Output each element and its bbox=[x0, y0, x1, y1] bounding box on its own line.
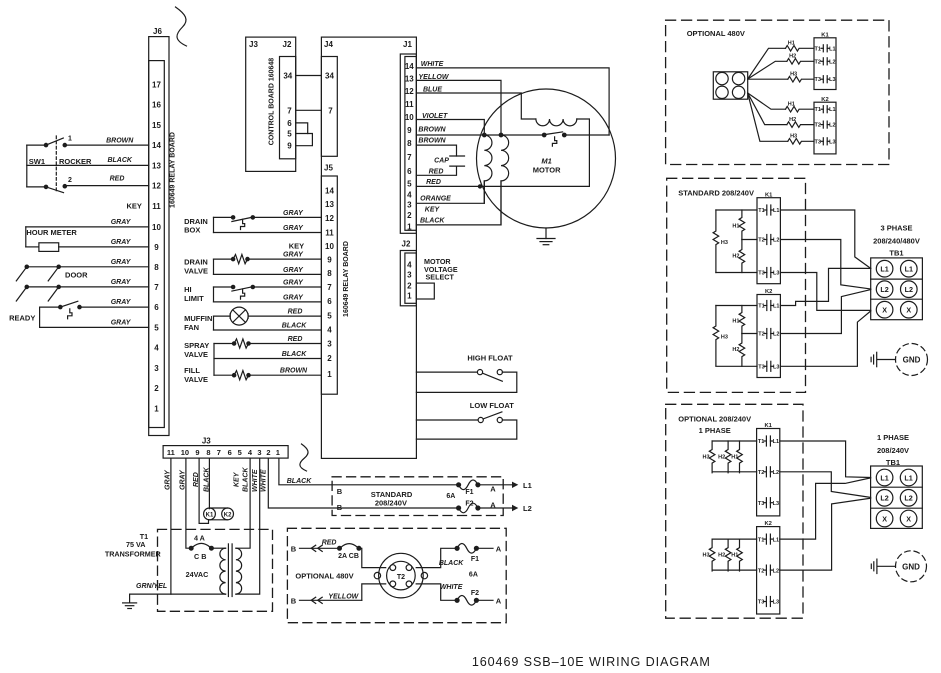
fuse F2 bbox=[457, 503, 480, 513]
svg-text:T3: T3 bbox=[814, 139, 820, 145]
svg-text:BOX: BOX bbox=[184, 226, 200, 235]
svg-text:L2: L2 bbox=[829, 123, 835, 129]
svg-text:A: A bbox=[496, 544, 502, 553]
svg-text:H1: H1 bbox=[731, 553, 738, 559]
svg-text:3: 3 bbox=[407, 200, 412, 209]
J5 pin box bbox=[321, 176, 337, 394]
SW1 mechanical link (dashed) bbox=[55, 136, 57, 191]
wire J3-10 GRAY down to breaker bbox=[186, 458, 189, 548]
svg-text:SW1: SW1 bbox=[29, 157, 45, 166]
svg-text:GRAY: GRAY bbox=[111, 219, 132, 226]
svg-text:160649 RELAY BOARD: 160649 RELAY BOARD bbox=[170, 132, 177, 208]
drain valve return wire J5 pin 8 bbox=[214, 259, 322, 274]
J4 pin numbers bbox=[325, 72, 334, 116]
OPTIONAL 480V heater module dashed box (top right) bbox=[666, 20, 889, 164]
K1 row labels T3 L3 bbox=[814, 77, 835, 83]
device DRAIN BOX label bbox=[184, 217, 208, 235]
K1 row labels T2 L2 bbox=[758, 470, 779, 476]
svg-text:8: 8 bbox=[407, 139, 412, 148]
muffin fan return wire J5 pin 4 bbox=[214, 316, 322, 330]
svg-text:1: 1 bbox=[68, 136, 72, 143]
capacitor CAP plates bbox=[450, 156, 465, 166]
breaker 2A CB bbox=[338, 544, 361, 551]
svg-text:BLACK: BLACK bbox=[107, 157, 132, 164]
svg-text:L1: L1 bbox=[523, 481, 532, 490]
svg-text:GRAY: GRAY bbox=[111, 279, 132, 286]
svg-text:A: A bbox=[490, 485, 496, 494]
K2 T2 row wire left bbox=[742, 333, 757, 335]
svg-text:10: 10 bbox=[405, 113, 414, 122]
wire J1-5 RED to motor start winding bbox=[416, 119, 589, 186]
svg-text:7: 7 bbox=[327, 283, 332, 292]
svg-text:FILL: FILL bbox=[184, 366, 200, 375]
svg-text:16: 16 bbox=[152, 101, 161, 110]
svg-text:GRAY: GRAY bbox=[283, 225, 304, 232]
svg-text:T1: T1 bbox=[758, 304, 764, 310]
drain box return wire J5 pin 11 bbox=[214, 217, 322, 232]
wire K1-T2 to TB1 L2 bbox=[780, 240, 870, 290]
wire control J2-7 to J4-7 bbox=[296, 109, 322, 111]
fuse F2 (480V) bbox=[455, 596, 478, 606]
device SPRAY VALVE label bbox=[184, 341, 209, 359]
svg-text:M1: M1 bbox=[541, 156, 551, 165]
svg-text:LOW FLOAT: LOW FLOAT bbox=[470, 401, 514, 410]
svg-text:HOUR METER: HOUR METER bbox=[26, 228, 77, 237]
heater H3 (K1) bbox=[788, 76, 814, 82]
svg-text:H3: H3 bbox=[721, 240, 728, 246]
svg-text:GRAY: GRAY bbox=[283, 252, 304, 259]
svg-text:YELLOW: YELLOW bbox=[328, 593, 359, 600]
svg-text:L2: L2 bbox=[773, 568, 779, 574]
K2 row T1-L1 contact bbox=[821, 106, 829, 113]
svg-text:GRAY: GRAY bbox=[111, 239, 132, 246]
device HI LIMIT label bbox=[184, 285, 204, 303]
svg-text:KEY: KEY bbox=[126, 202, 141, 211]
svg-text:K1: K1 bbox=[206, 512, 214, 518]
svg-text:K1: K1 bbox=[821, 32, 829, 38]
svg-text:3: 3 bbox=[154, 364, 159, 373]
wire control J2-34 to J4-34 bbox=[296, 75, 322, 77]
heater H2 (K1) bbox=[787, 59, 814, 65]
svg-text:L1: L1 bbox=[829, 107, 835, 113]
K2 row T2-L2 contact bbox=[821, 121, 829, 128]
K2 row labels T2 L2 bbox=[758, 568, 779, 574]
K1 T2 row wire left bbox=[742, 239, 757, 241]
K1 T3 row wire left bbox=[716, 272, 757, 274]
svg-text:ROCKER: ROCKER bbox=[59, 157, 92, 166]
heater H2 (K1 1ph) bbox=[725, 441, 731, 473]
svg-text:BROWN: BROWN bbox=[280, 368, 308, 375]
contactor K1 (3ph) box bbox=[757, 198, 780, 284]
svg-text:WHITE: WHITE bbox=[421, 61, 444, 68]
cable break squiggle right of J3 bbox=[300, 444, 308, 471]
svg-text:T3: T3 bbox=[814, 77, 820, 83]
svg-text:READY: READY bbox=[9, 314, 35, 323]
svg-text:T2: T2 bbox=[758, 332, 764, 338]
svg-text:T2: T2 bbox=[758, 470, 764, 476]
heater H2 (vertical, K1) bbox=[739, 240, 745, 273]
K1 row T3-L3 contact bbox=[764, 498, 773, 508]
wire fanout to K2 row3 bbox=[748, 93, 788, 141]
svg-text:H3: H3 bbox=[790, 72, 797, 78]
svg-text:208/240V: 208/240V bbox=[877, 446, 909, 455]
input wire YELLOW with plug chevrons bbox=[300, 597, 362, 603]
wire J1-9 BROWN bbox=[416, 134, 544, 136]
svg-text:J1: J1 bbox=[403, 40, 412, 49]
svg-text:C B: C B bbox=[194, 552, 206, 561]
hi limit switch on J5 pin 7 wire bbox=[214, 285, 322, 299]
svg-text:7: 7 bbox=[154, 283, 159, 292]
chassis ground symbol (1 phase) bbox=[871, 559, 895, 573]
svg-text:VALVE: VALVE bbox=[184, 266, 208, 275]
svg-text:X: X bbox=[906, 306, 911, 315]
svg-text:BLACK: BLACK bbox=[242, 467, 249, 492]
svg-text:L3: L3 bbox=[773, 600, 779, 606]
svg-text:L2: L2 bbox=[773, 470, 779, 476]
svg-text:L1: L1 bbox=[773, 208, 779, 214]
svg-text:CAP: CAP bbox=[434, 157, 449, 164]
device DRAIN VALVE label bbox=[184, 258, 208, 276]
svg-text:DRAIN: DRAIN bbox=[184, 258, 208, 267]
junction dot on RED wire bbox=[478, 185, 481, 188]
K2 row labels T3 L3 bbox=[758, 600, 779, 606]
svg-text:L3: L3 bbox=[773, 271, 779, 277]
connector J6 body bbox=[149, 37, 169, 436]
K2 row T3-L3 contact bbox=[764, 597, 773, 607]
svg-text:2: 2 bbox=[407, 211, 412, 220]
K1 row T2-L2 contact bbox=[821, 58, 829, 65]
svg-text:L2: L2 bbox=[829, 59, 835, 65]
svg-text:6: 6 bbox=[327, 297, 332, 306]
heater H2 (K2 1ph) bbox=[725, 539, 731, 571]
svg-text:KEY: KEY bbox=[425, 207, 441, 214]
svg-text:7: 7 bbox=[287, 106, 292, 115]
J4 pin box bbox=[321, 57, 337, 157]
K1 T1 row wire left bbox=[712, 440, 757, 442]
svg-text:K2: K2 bbox=[765, 289, 772, 295]
svg-text:3: 3 bbox=[327, 340, 332, 349]
heater H1 (vertical, K2) bbox=[739, 306, 745, 334]
svg-text:H1: H1 bbox=[732, 224, 739, 230]
svg-text:L1: L1 bbox=[829, 46, 835, 52]
svg-text:RED: RED bbox=[426, 179, 441, 186]
svg-text:6A: 6A bbox=[469, 571, 478, 578]
heater H3 (K2 1ph) bbox=[709, 539, 715, 571]
svg-text:1: 1 bbox=[407, 292, 412, 301]
svg-text:DOOR: DOOR bbox=[65, 270, 88, 279]
output wire arrow L1 bbox=[478, 482, 518, 488]
svg-text:K2: K2 bbox=[224, 512, 232, 518]
svg-text:X: X bbox=[882, 306, 887, 315]
svg-text:11: 11 bbox=[405, 100, 414, 109]
svg-text:GRAY: GRAY bbox=[283, 294, 304, 301]
svg-text:L1: L1 bbox=[880, 473, 888, 482]
svg-text:6: 6 bbox=[287, 119, 292, 128]
svg-text:9: 9 bbox=[327, 256, 332, 265]
transformer core bbox=[228, 544, 232, 597]
heater H1 (K2) bbox=[786, 106, 815, 112]
high float switch loop bbox=[416, 370, 516, 393]
transformer secondary winding bbox=[236, 548, 242, 594]
svg-text:J4: J4 bbox=[324, 40, 333, 49]
hi limit return wire J5 pin 6 bbox=[214, 287, 322, 302]
K2 row labels T1 L1 bbox=[758, 537, 779, 543]
svg-text:L3: L3 bbox=[773, 365, 779, 371]
heater H3 (K2) bbox=[788, 139, 814, 145]
svg-text:LIMIT: LIMIT bbox=[184, 294, 204, 303]
K1 row labels T2 L2 bbox=[758, 238, 779, 244]
transformer T1 labels bbox=[105, 532, 162, 559]
connector J2 (motor voltage select) body bbox=[400, 251, 416, 306]
svg-text:1 PHASE: 1 PHASE bbox=[699, 426, 731, 435]
motor start winding top coil bbox=[536, 119, 577, 126]
fuse F1 bbox=[457, 480, 480, 490]
svg-text:T1: T1 bbox=[758, 537, 764, 543]
K1 row labels T3 L3 bbox=[758, 501, 779, 507]
transformer T1 module dashed box bbox=[158, 529, 273, 611]
K2 T2 row wire left bbox=[712, 569, 757, 571]
svg-text:K1: K1 bbox=[765, 192, 773, 198]
svg-text:4: 4 bbox=[407, 261, 412, 270]
K2 row T2-L2 contact bbox=[764, 329, 773, 339]
svg-text:T2: T2 bbox=[397, 574, 405, 581]
svg-text:F2: F2 bbox=[471, 590, 479, 597]
drain box switch on J5 pin 12 wire bbox=[214, 216, 322, 230]
relay board main rectangle (J4/J1) bbox=[321, 37, 416, 458]
svg-text:1: 1 bbox=[327, 370, 332, 379]
transformer primary winding bbox=[220, 548, 226, 594]
svg-text:H2: H2 bbox=[718, 553, 725, 559]
wire CB to T2 top-left bbox=[361, 548, 386, 567]
wire J3-11 GRAY down to transformer primary bbox=[170, 458, 172, 594]
svg-text:L2: L2 bbox=[773, 238, 779, 244]
svg-text:7: 7 bbox=[328, 106, 333, 115]
K2 row labels T1 L1 bbox=[758, 304, 779, 310]
wire yellow to T2 bottom-left bbox=[362, 584, 386, 600]
STANDARD 208/240V heater module dashed box (middle right) bbox=[667, 178, 806, 392]
svg-text:T3: T3 bbox=[758, 365, 764, 371]
K1 row T2-L2 contact bbox=[764, 467, 773, 477]
svg-text:GRAY: GRAY bbox=[283, 280, 304, 287]
wire K1-T1 to TB1 L1 bbox=[780, 210, 870, 268]
K2 row T3-L3 contact bbox=[764, 361, 773, 371]
svg-text:4: 4 bbox=[154, 344, 159, 353]
wire fanout to K2 row2 bbox=[748, 93, 787, 125]
svg-text:OPTIONAL 480V: OPTIONAL 480V bbox=[295, 572, 353, 581]
svg-text:T3: T3 bbox=[758, 501, 764, 507]
svg-text:J5: J5 bbox=[324, 164, 333, 173]
SW1 left bus wire bbox=[26, 145, 28, 187]
svg-text:4: 4 bbox=[407, 190, 412, 199]
control board pin numbers bbox=[283, 72, 292, 151]
wire J3-2 WHITE to standard fuse box bbox=[268, 458, 458, 508]
transformer T2 assembly bbox=[374, 553, 427, 598]
K2 row T1-L1 contact bbox=[764, 301, 773, 311]
svg-text:A: A bbox=[496, 596, 502, 605]
K2 T3 row wire left bbox=[716, 365, 757, 367]
svg-text:H1: H1 bbox=[788, 41, 795, 47]
svg-text:GRAY: GRAY bbox=[283, 267, 304, 274]
label 1 PHASE 208/240V TB1 bbox=[877, 433, 909, 467]
svg-text:H2: H2 bbox=[789, 54, 796, 60]
svg-text:L3: L3 bbox=[773, 501, 779, 507]
wire J3-3 WHITE down to transformer secondary bbox=[236, 458, 260, 594]
TB1 terminal labels bbox=[880, 265, 913, 315]
K2 row labels T2 L2 bbox=[814, 123, 835, 129]
svg-text:3: 3 bbox=[407, 271, 412, 280]
svg-text:L1: L1 bbox=[773, 537, 779, 543]
svg-text:BLACK: BLACK bbox=[287, 478, 312, 485]
svg-text:RED: RED bbox=[429, 168, 444, 175]
svg-text:5: 5 bbox=[407, 179, 412, 188]
wire J3-9 RED down to relay K1 bbox=[199, 458, 208, 523]
wire J1-8 BROWN to capacitor bbox=[416, 145, 456, 156]
svg-text:5: 5 bbox=[287, 130, 292, 139]
K2 row T1-L1 contact bbox=[764, 534, 773, 544]
svg-text:BLACK: BLACK bbox=[282, 323, 307, 330]
svg-text:L2: L2 bbox=[880, 494, 888, 503]
jumper pins 6-5 bbox=[296, 123, 308, 134]
heater H1 (K1) bbox=[786, 46, 815, 52]
transformer primary bottom wire bbox=[130, 593, 226, 595]
svg-text:160649 RELAY BOARD: 160649 RELAY BOARD bbox=[343, 241, 350, 317]
wire switch to white vertical bbox=[564, 134, 609, 136]
svg-text:K2: K2 bbox=[821, 97, 828, 103]
svg-text:F1: F1 bbox=[471, 556, 479, 563]
svg-text:TB1: TB1 bbox=[889, 248, 903, 257]
switch SW1 common wire (BLACK, J6 pin 13) bbox=[27, 164, 149, 166]
svg-text:ORANGE: ORANGE bbox=[420, 196, 451, 203]
low float switch loop bbox=[416, 412, 516, 439]
480V terminal block bbox=[713, 72, 747, 99]
jumper pins 5-9 bbox=[296, 134, 313, 146]
svg-text:12: 12 bbox=[152, 182, 161, 191]
svg-text:L1: L1 bbox=[904, 473, 912, 482]
switch SW1 rocker pole 2 wire (RED, J6 pin 12) bbox=[27, 185, 149, 193]
svg-text:BROWN: BROWN bbox=[106, 138, 134, 145]
svg-text:GND: GND bbox=[903, 356, 921, 365]
K2 T1 row wire left bbox=[712, 538, 757, 540]
svg-text:MUFFIN: MUFFIN bbox=[184, 314, 212, 323]
svg-text:15: 15 bbox=[152, 121, 161, 130]
svg-text:7: 7 bbox=[407, 153, 412, 162]
svg-text:J3: J3 bbox=[202, 436, 211, 445]
svg-text:13: 13 bbox=[325, 200, 334, 209]
device MUFFIN FAN label bbox=[184, 314, 212, 332]
svg-text:L2: L2 bbox=[880, 285, 888, 294]
wire J1-6 RED to capacitor bbox=[416, 166, 456, 175]
label MOTOR VOLTAGE SELECT bbox=[424, 257, 458, 281]
wire K1-T2 to TB1 L2 (1ph) bbox=[780, 472, 871, 498]
motor M1 housing circle bbox=[477, 89, 616, 228]
svg-text:9: 9 bbox=[195, 448, 199, 457]
svg-text:8: 8 bbox=[206, 448, 210, 457]
K2 row labels T3 L3 bbox=[758, 365, 779, 371]
K2 row labels T3 L3 bbox=[814, 139, 835, 145]
svg-text:T1: T1 bbox=[758, 439, 764, 445]
wire J3-1 BLACK to standard fuse box bbox=[279, 458, 459, 485]
svg-text:2: 2 bbox=[68, 177, 72, 184]
svg-text:2: 2 bbox=[327, 354, 332, 363]
door switch wire (GRAY, J6 pin 8) bbox=[16, 265, 148, 281]
svg-text:OPTIONAL 480V: OPTIONAL 480V bbox=[687, 29, 745, 38]
wire T2 bottom-right to fuse F2 bbox=[416, 584, 457, 600]
contactor K2 (480V) box bbox=[814, 102, 836, 154]
svg-text:J2: J2 bbox=[283, 40, 292, 49]
svg-text:6A: 6A bbox=[446, 493, 455, 500]
svg-text:CONTROL BOARD 160648: CONTROL BOARD 160648 bbox=[269, 58, 276, 146]
svg-text:OPTIONAL 208/240V: OPTIONAL 208/240V bbox=[678, 415, 751, 424]
ready switch wire (GRAY, J6 pin 6) bbox=[40, 301, 149, 319]
svg-text:L2: L2 bbox=[905, 285, 913, 294]
svg-text:VALVE: VALVE bbox=[184, 375, 208, 384]
svg-text:VIOLET: VIOLET bbox=[422, 113, 448, 120]
svg-text:75 VA: 75 VA bbox=[126, 540, 145, 549]
device FILL VALVE label bbox=[184, 366, 208, 384]
svg-text:10: 10 bbox=[181, 448, 189, 457]
wire K1-T1 to TB1 L1 (1ph) bbox=[780, 441, 871, 478]
svg-text:10: 10 bbox=[325, 242, 334, 251]
svg-text:10: 10 bbox=[152, 223, 161, 232]
circuit breaker CB bbox=[189, 543, 213, 550]
motor label M1 MOTOR bbox=[533, 156, 561, 174]
K2 row T3-L3 contact bbox=[821, 138, 829, 145]
J1 pin numbers 14..1 bbox=[405, 62, 414, 232]
svg-text:H1: H1 bbox=[788, 102, 795, 108]
K1 row labels T2 L2 bbox=[814, 59, 835, 65]
svg-text:9: 9 bbox=[407, 126, 412, 135]
output wire arrow L2 bbox=[478, 505, 518, 511]
svg-text:H1: H1 bbox=[731, 454, 738, 460]
svg-text:L3: L3 bbox=[829, 77, 835, 83]
heater H2 (K2) bbox=[787, 122, 814, 128]
K1 row T3-L3 contact bbox=[821, 76, 829, 83]
svg-text:1 PHASE: 1 PHASE bbox=[877, 433, 909, 442]
svg-text:12: 12 bbox=[325, 214, 334, 223]
svg-text:BLACK: BLACK bbox=[420, 217, 445, 224]
K1 row labels T3 L3 bbox=[758, 271, 779, 277]
relay labels K1 K2 bbox=[206, 512, 232, 518]
J5 pin numbers 14..1 bbox=[325, 187, 334, 380]
svg-text:L1: L1 bbox=[905, 265, 913, 274]
wire J1-14 WHITE bbox=[416, 68, 609, 135]
label 3 PHASE 208/240/480V TB1 bbox=[873, 223, 920, 257]
wire J3-8 BLACK down to relay K1 bbox=[208, 458, 210, 509]
svg-text:208/240V: 208/240V bbox=[375, 499, 407, 508]
svg-text:SPRAY: SPRAY bbox=[184, 341, 209, 350]
contactor K2 (1ph) box bbox=[757, 527, 780, 614]
ready return wire (GRAY, J6 pin 5) bbox=[40, 307, 149, 327]
K1 row labels T1 L1 bbox=[814, 46, 835, 52]
svg-text:J6: J6 bbox=[153, 27, 162, 36]
svg-text:MOTOR: MOTOR bbox=[533, 165, 561, 174]
svg-text:160469 SSB–10E WIRING DIAGR: 160469 SSB–10E WIRING DIAGRAM bbox=[472, 655, 711, 669]
svg-text:L1: L1 bbox=[773, 304, 779, 310]
svg-text:14: 14 bbox=[152, 141, 161, 150]
svg-text:F1: F1 bbox=[465, 489, 473, 496]
wire CB to primary bbox=[213, 547, 225, 549]
wire J1-10 VIOLET bbox=[416, 120, 484, 136]
K2 T1 row wire left bbox=[716, 305, 757, 307]
wire K2-T2 to TB1 L2 bbox=[780, 290, 870, 334]
terminal block TB1 (3 phase) bbox=[871, 258, 923, 320]
svg-text:GRAY: GRAY bbox=[111, 299, 132, 306]
earth ground symbol bbox=[123, 594, 137, 608]
K1 row T1-L1 contact bbox=[764, 205, 773, 215]
svg-text:H3: H3 bbox=[721, 335, 728, 341]
svg-text:GRAY: GRAY bbox=[111, 319, 132, 326]
K1 T2 row wire left bbox=[712, 471, 757, 473]
